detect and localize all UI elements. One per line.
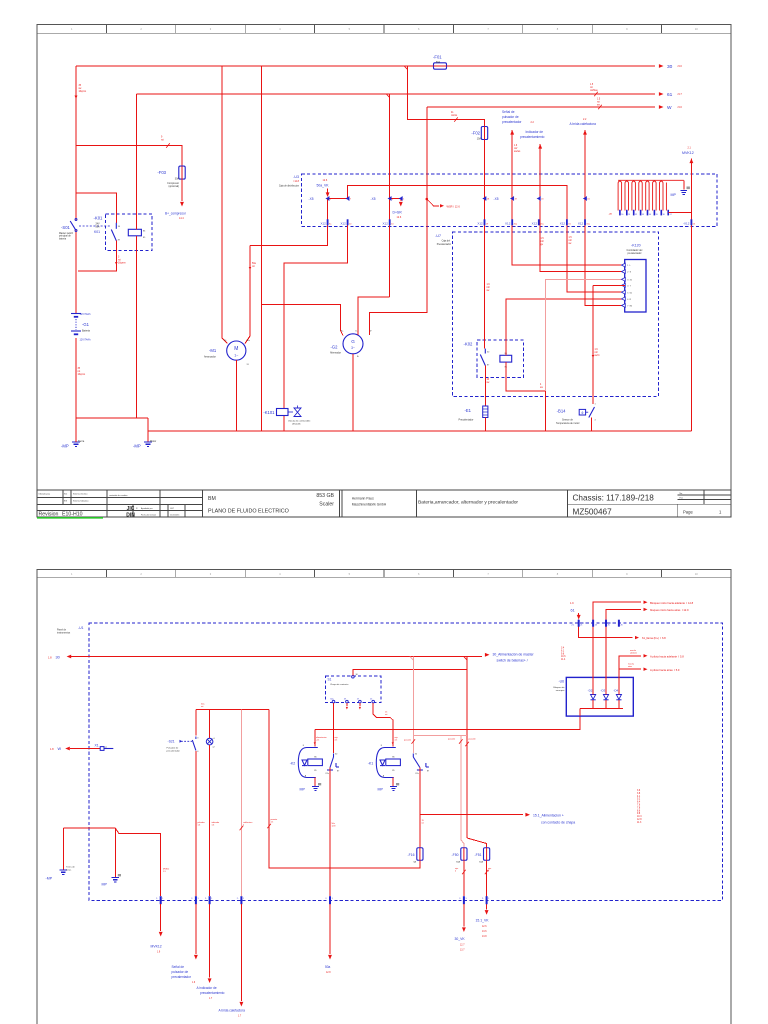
- wire 50a_VK stub: [327, 189, 329, 194]
- arrowhead Indicador: [538, 144, 542, 149]
- svg-text:23: 23: [595, 624, 597, 626]
- svg-text:1~: 1~: [234, 354, 238, 358]
- fuse F51 50A: [484, 848, 490, 861]
- svg-text:+15: +15: [316, 740, 319, 742]
- wire brida output: [240, 904, 242, 1001]
- svg-text:-U7: -U7: [435, 234, 441, 238]
- connector pin K120 pin 2: [622, 270, 626, 274]
- solenoid valve K101 Valvula de combustible: [277, 409, 289, 416]
- svg-text:/3.7: /3.7: [678, 92, 683, 96]
- relay contact K01: [115, 223, 117, 229]
- svg-text:rot: rot: [590, 86, 593, 89]
- wire bus30 to fuse F02: [408, 66, 485, 126]
- branch jog bus30 at x=407.6: [404, 66, 407, 70]
- svg-text:Bloqueo de: Bloqueo de: [553, 687, 565, 689]
- page 1 border frame: [37, 25, 731, 518]
- svg-text:1: 1: [211, 898, 212, 900]
- arrowhead MVK12 output: [159, 932, 163, 937]
- wire diode D2 anode: [592, 700, 594, 709]
- svg-text:precalentador: precalentador: [628, 252, 642, 255]
- svg-text:Utilizado para: Utilizado para: [39, 493, 52, 496]
- wire to F50 (pale): [461, 736, 464, 848]
- title block: [37, 490, 731, 517]
- page 1 header column ticks: [106, 25, 661, 34]
- connector pin X12: [511, 219, 513, 225]
- svg-text:12.6: 12.6: [323, 179, 328, 182]
- svg-text:MVK12: MVK12: [682, 151, 694, 155]
- svg-text:rot/: rot/: [514, 147, 518, 150]
- wire S1 pin19 stub: [346, 703, 348, 706]
- direction arrow on battery bus: [75, 96, 78, 100]
- arrowhead bloqueo atras: [644, 608, 648, 611]
- arrowhead 30 input: [67, 655, 72, 659]
- wire starter to ground bus: [235, 360, 237, 431]
- heater element E1 Precalentador: [483, 406, 488, 418]
- svg-text:rot/: rot/: [595, 351, 599, 354]
- wire diode bus exit: [579, 709, 581, 717]
- svg-text:-MP: -MP: [61, 444, 69, 449]
- arrowhead 61 input: [577, 615, 581, 620]
- svg-text:1.6: 1.6: [212, 825, 215, 827]
- arrowhead Señal output: [194, 955, 198, 960]
- svg-text:12.6: 12.6: [397, 216, 402, 219]
- svg-text:/ 12.8: / 12.8: [293, 180, 300, 183]
- wire E1 to ground bus: [484, 418, 486, 431]
- svg-text:10.6: 10.6: [561, 656, 566, 658]
- connector pin 15.1_VK output: [486, 896, 488, 904]
- ground -MP Tierra de lonas: [60, 870, 68, 874]
- svg-text:2:1: 2:1: [572, 624, 575, 626]
- svg-text:Page: Page: [683, 510, 693, 515]
- wire ground to MVK12 output: [115, 828, 160, 896]
- arrowhead 30_Alimentacion: [485, 653, 490, 657]
- connector pin 25 at U1 top: [605, 620, 607, 627]
- svg-text:-X5: -X5: [371, 197, 376, 201]
- svg-text:Valvula de combustible: Valvula de combustible: [288, 420, 311, 423]
- svg-text:(opcional): (opcional): [169, 185, 180, 188]
- svg-text:12.6: 12.6: [482, 926, 487, 928]
- svg-text:-B14: -B14: [557, 409, 567, 414]
- arrowhead 50a_VK: [326, 192, 330, 197]
- svg-text:11.03.2015: 11.03.2015: [170, 515, 179, 517]
- arrowhead bus W: [659, 105, 664, 109]
- svg-text:1.6: 1.6: [198, 825, 201, 827]
- connector pin 26 at U1 top: [618, 620, 620, 627]
- svg-text:-K120: -K120: [631, 244, 641, 248]
- svg-text:1: 1: [243, 898, 244, 900]
- svg-text:-K02: -K02: [464, 341, 474, 346]
- connector pin -X5: [325, 197, 328, 201]
- svg-text:-E1: -E1: [464, 408, 471, 413]
- svg-text:Maschinenfabrik GmbH: Maschinenfabrik GmbH: [352, 502, 387, 506]
- svg-text:rot: rot: [118, 258, 121, 261]
- svg-text:80A: 80A: [436, 61, 441, 64]
- svg-text:-X5: -X5: [309, 197, 314, 201]
- svg-text:/3.0: /3.0: [678, 105, 683, 109]
- ground -MP Tierra: [72, 442, 80, 446]
- wire ground bus left: [63, 827, 115, 829]
- wire K1 87 to junction 15.1: [419, 768, 421, 848]
- connector pin K120 pin 4: [622, 283, 626, 287]
- switch S01 master battery switch: [75, 219, 77, 221]
- svg-text:bateria: bateria: [59, 237, 67, 240]
- wire 30 to K1 contact (pale): [412, 657, 414, 754]
- wire X12 10 to valve K101: [284, 222, 348, 409]
- connector pin X12: [389, 219, 391, 225]
- svg-text:-MP: -MP: [46, 877, 53, 881]
- wire K02 coil 85 to ground bus: [506, 362, 546, 431]
- svg-text:A brida calefactora: A brida calefactora: [219, 1008, 246, 1012]
- wire 15.1 to arrow: [420, 814, 523, 816]
- svg-text:61_llama (D+) I 6.8: 61_llama (D+) I 6.8: [642, 636, 666, 640]
- wire to K2 coil: [314, 730, 316, 747]
- svg-text:4.5: 4.5: [335, 740, 338, 742]
- svg-text:Chassis: 117.189-/218: Chassis: 117.189-/218: [573, 494, 655, 503]
- svg-text:bloqueo inicio hacia atras I: bloqueo inicio hacia atras I 12.9: [650, 608, 689, 612]
- arrowhead D+SR: [399, 202, 403, 207]
- svg-text:No.: No.: [680, 493, 684, 495]
- arrowhead Señal: [510, 130, 514, 135]
- arrowhead MVK12: [689, 159, 693, 164]
- connector pin -X5: [482, 197, 485, 201]
- connector pin X12: [691, 219, 693, 225]
- wire X5 jumper 6-7: [328, 198, 348, 200]
- wire B14 to ground bus: [591, 418, 593, 431]
- svg-text:-K101: -K101: [263, 410, 275, 415]
- svg-text:precalentamiento: precalentamiento: [520, 135, 545, 139]
- svg-text:MP: MP: [102, 883, 108, 887]
- wire to S21: [195, 710, 197, 736]
- arrowhead W input: [65, 747, 70, 751]
- wire 50a output: [329, 904, 331, 954]
- connector pin X12: [584, 219, 586, 225]
- wire to indicator lamp: [209, 710, 211, 739]
- direction arrow: [314, 742, 316, 745]
- wire X5 jumper 4-1: [390, 199, 401, 202]
- svg-text:precalentador: precalentador: [172, 975, 192, 979]
- ground -MP Motor: [144, 442, 152, 446]
- svg-text:-U6: -U6: [559, 680, 565, 684]
- svg-text:-U1: -U1: [78, 626, 84, 630]
- svg-text:15.1_Alimentacion +: 15.1_Alimentacion +: [533, 813, 564, 817]
- connector pin Señal output: [195, 896, 197, 904]
- wire link 735 (pale): [413, 735, 467, 737]
- svg-text:X12: X12: [505, 221, 511, 225]
- wire alternator to ground bus: [352, 354, 354, 431]
- svg-text:(Shutoff): (Shutoff): [292, 423, 301, 426]
- fuse F02 15A: [481, 127, 487, 140]
- svg-text:MZ500467: MZ500467: [573, 507, 613, 516]
- connector pin 23 at U1 top: [592, 620, 594, 627]
- svg-text:12V/74Ah: 12V/74Ah: [80, 339, 92, 342]
- connector pin -X5: [583, 197, 586, 201]
- page 2 border frame: [37, 570, 731, 1024]
- wire lamp to indicador output: [209, 745, 211, 896]
- svg-text:Hermann Paus: Hermann Paus: [352, 496, 374, 500]
- svg-text:rot/blau: rot/blau: [590, 89, 598, 92]
- ignition switch S1 top pin: [352, 676, 355, 679]
- svg-text:rot: rot: [597, 100, 600, 103]
- connector pin X12: [484, 219, 486, 225]
- arrowhead Bloqueo adelante: [644, 601, 648, 604]
- wire D2 to Bloqueo adelante: [593, 602, 641, 694]
- wire to fuse F03: [76, 146, 182, 168]
- svg-text:A piloto hacia adelante I 5.8: A piloto hacia adelante I 5.8: [650, 654, 684, 658]
- svg-text:16qmm: 16qmm: [118, 262, 126, 264]
- svg-text:4.5: 4.5: [395, 740, 398, 742]
- wire jog to F51: [467, 838, 487, 848]
- wire to ground 2: [147, 418, 149, 442]
- arrowhead stub: [346, 707, 348, 710]
- svg-text:Caja de distribucion: Caja de distribucion: [279, 185, 300, 188]
- svg-text:-G1: -G1: [82, 322, 90, 327]
- svg-text:sw: sw: [79, 88, 82, 90]
- svg-text:30: 30: [667, 64, 673, 70]
- svg-text:sw/rt: sw/rt: [595, 354, 600, 357]
- wire 30 feed down to F51: [466, 657, 468, 839]
- svg-text:rot/: rot/: [487, 286, 491, 289]
- svg-text:-MP: -MP: [133, 444, 141, 449]
- wire Señal output: [195, 904, 197, 954]
- svg-text:precalentamiento: precalentamiento: [200, 991, 225, 995]
- svg-text:13.8: 13.8: [482, 936, 487, 938]
- wire battery bus lower: [75, 338, 77, 441]
- svg-text:-F50: -F50: [452, 853, 459, 857]
- svg-text:PLANO DE FLUIDO ELECTRICO: PLANO DE FLUIDO ELECTRICO: [208, 509, 289, 515]
- wire F02 to K02 contact: [484, 140, 486, 349]
- ignition switch S1 box (dashed): [326, 676, 381, 703]
- direction arrow: [392, 742, 394, 745]
- wire brida calefactora (pale): [240, 710, 242, 897]
- wire to K01 contact: [76, 193, 116, 223]
- svg-text:sw: sw: [597, 104, 600, 106]
- wire heater bottom to MVK12 line: [669, 212, 692, 214]
- ground MP under K1: [390, 787, 397, 791]
- instrument panel box U1 (dashed): [89, 623, 723, 900]
- svg-text:15.1_VK: 15.1_VK: [476, 919, 490, 923]
- svg-text:instrumentos: instrumentos: [57, 632, 71, 635]
- ignition switch S1 pin 50a: [332, 700, 335, 703]
- svg-text:30A: 30A: [175, 178, 180, 181]
- svg-text:61: 61: [667, 92, 673, 98]
- wire Indicador to K120 pin2: [540, 144, 625, 272]
- wire S1 feed from 30: [353, 670, 467, 676]
- svg-text:Precalentador: Precalentador: [437, 243, 452, 246]
- distribution box U3 (dashed): [302, 174, 717, 227]
- wire bus 15 to U6 diode box: [315, 716, 580, 729]
- svg-text:Motor: Motor: [150, 440, 156, 443]
- svg-text:-K2: -K2: [290, 762, 296, 766]
- svg-text:S1: S1: [328, 678, 332, 682]
- wire 50a to starter: [245, 246, 250, 344]
- svg-text:50A: 50A: [96, 225, 101, 228]
- relay K01 (dashed box): [106, 214, 152, 251]
- svg-text:Sistema hidraulico: Sistema hidraulico: [73, 500, 88, 503]
- svg-text:15A: 15A: [477, 138, 482, 141]
- svg-text:adelante: adelante: [630, 651, 637, 654]
- wire ground link: [76, 417, 148, 419]
- svg-text:61: 61: [571, 609, 575, 613]
- connector pin K120 pin 7: [622, 304, 626, 308]
- svg-text:11.3: 11.3: [637, 822, 642, 824]
- wire K02 coil 86 to K120 pin6: [506, 299, 625, 356]
- arrowhead WSR: [440, 204, 444, 207]
- temperature sensor B14 Sensor de Temperatura de motor: [579, 409, 585, 415]
- svg-text:JIC: JIC: [127, 506, 135, 512]
- svg-text:3~: 3~: [351, 346, 355, 350]
- svg-text:Bateria,arrancador, alternador: Bateria,arrancador, alternador y precale…: [418, 499, 518, 505]
- heater array pins: [619, 210, 669, 216]
- svg-text:precalentador: precalentador: [167, 749, 181, 752]
- svg-text:30: 30: [56, 656, 60, 660]
- svg-text:4.5: 4.5: [271, 822, 274, 824]
- wire F50 to 30_VK pin: [463, 860, 465, 896]
- arrowhead bus 61: [659, 92, 664, 96]
- connector pin K120 pin 3: [622, 277, 626, 281]
- branch jog 30bus at x=467.1: [464, 657, 467, 661]
- svg-text:2 S: 2 S: [627, 272, 631, 274]
- connector X1: [100, 747, 104, 751]
- connector pin X12: [327, 219, 329, 225]
- relay K02 (dashed box): [477, 340, 523, 377]
- svg-text:-X5: -X5: [494, 197, 499, 201]
- arrowhead 61_llama: [635, 636, 639, 639]
- wire F16 to S21 bus: [269, 710, 420, 869]
- wire K2 87 to 50a output: [329, 768, 331, 897]
- wire 50a to K120 pin5: [348, 186, 625, 293]
- svg-text:96: 96: [663, 214, 665, 216]
- svg-text:Chapa de contacto: Chapa de contacto: [330, 683, 349, 686]
- wire D3 to bloqueo atras: [606, 609, 641, 694]
- wire bus 30: [76, 65, 655, 67]
- ignition switch S1 pin 19: [346, 700, 349, 703]
- svg-text:1: 1: [162, 898, 163, 900]
- ground MP page2: [112, 878, 120, 882]
- svg-text:rot/: rot/: [541, 240, 545, 243]
- wire diode D3 anode: [605, 700, 607, 709]
- wire alternator D+: [358, 297, 390, 335]
- connector pin -X5: [388, 197, 391, 201]
- svg-text:W: W: [58, 747, 62, 751]
- svg-text:Caja del: Caja del: [442, 241, 451, 243]
- wire K01 contact to bus: [78, 241, 116, 271]
- svg-text:Bloqueo inicio hacia adelante: Bloqueo inicio hacia adelante I 12.8: [650, 601, 694, 605]
- svg-text:25: 25: [608, 624, 610, 626]
- svg-text:-S01: -S01: [61, 225, 71, 230]
- arrowhead A brida: [583, 130, 587, 135]
- svg-text:1: 1: [332, 898, 333, 900]
- wire bus30 to alternator: [261, 66, 263, 431]
- arrowhead 30_VK output: [462, 927, 466, 932]
- wire B14 to K120 pin4: [593, 284, 625, 286]
- svg-text:Temperatura de motor: Temperatura de motor: [556, 422, 580, 425]
- connector pin -X5: [345, 197, 348, 201]
- relay coil K01: [128, 229, 141, 236]
- svg-text:lonas: lonas: [66, 870, 72, 872]
- arrowhead B+_compresor: [180, 202, 184, 207]
- connector pin 50a output: [329, 896, 331, 904]
- svg-text:-D3: -D3: [601, 689, 606, 693]
- fuse F16 5A: [417, 848, 423, 861]
- svg-text:sw: sw: [487, 290, 490, 292]
- fuse F03 30A compresor: [179, 166, 185, 179]
- svg-text:rot: rot: [161, 138, 164, 141]
- wire alternator W to bus: [370, 107, 427, 335]
- wire bottom ground bus: [148, 430, 691, 432]
- svg-text:-F16: -F16: [408, 853, 415, 857]
- connector pin X12: [347, 219, 349, 225]
- svg-text:1: 1: [198, 898, 199, 900]
- wire heater top to MP ground: [683, 180, 685, 189]
- svg-text:-X12: -X12: [683, 221, 690, 225]
- svg-text:30_Alimentación de master: 30_Alimentación de master: [493, 652, 535, 656]
- relay module K2: [298, 748, 339, 778]
- svg-text:50A: 50A: [479, 861, 483, 864]
- svg-text:pulsador de: pulsador de: [172, 970, 189, 974]
- svg-text:Sist: Sist: [64, 493, 68, 496]
- fuse F50 50A: [461, 848, 467, 861]
- svg-text:MP: MP: [300, 788, 306, 792]
- wire S21 feed bus: [196, 709, 269, 711]
- svg-text:16qmm: 16qmm: [79, 91, 87, 93]
- svg-text:Arrancador: Arrancador: [204, 356, 216, 359]
- svg-text:X12: X12: [532, 221, 538, 225]
- svg-text:con contacto de chapa: con contacto de chapa: [541, 821, 575, 825]
- svg-text:MVK12: MVK12: [151, 945, 162, 949]
- svg-text:BM: BM: [208, 496, 216, 502]
- wire 61 to 61_llama: [579, 620, 633, 638]
- preheater box U7 (dashed): [453, 232, 659, 397]
- starter motor M1: [227, 341, 246, 360]
- svg-text:-M1: -M1: [209, 348, 217, 353]
- wire battery bus upper: [75, 66, 77, 220]
- connector pin -X5: [399, 197, 402, 201]
- wire MVK12 to ground bus: [690, 159, 692, 431]
- svg-text:X12: X12: [578, 221, 584, 225]
- svg-text:97: 97: [670, 214, 672, 216]
- svg-text:91: 91: [628, 214, 630, 216]
- svg-text:-F51: -F51: [475, 853, 482, 857]
- branch jog bus61 at x=389.7: [386, 94, 389, 98]
- battery G1: [71, 314, 81, 335]
- svg-text:50a: 50a: [325, 965, 331, 969]
- connector pin -X5: [537, 197, 540, 201]
- svg-text:B-: B-: [357, 356, 359, 358]
- svg-text:X1: X1: [95, 743, 99, 747]
- svg-text:Pulsador de: Pulsador de: [167, 746, 179, 749]
- svg-text:A indicador de: A indicador de: [197, 986, 217, 990]
- wire W to X1: [70, 748, 100, 750]
- svg-text:M: M: [234, 346, 238, 352]
- connector pin indicador output: [209, 896, 211, 904]
- wire B+ pin: [340, 330, 343, 336]
- wire MVK12 output: [160, 904, 162, 931]
- wire piloto atras: [619, 668, 641, 670]
- ground MP under K2: [312, 787, 319, 791]
- wire D4 to piloto adelante: [619, 656, 641, 695]
- svg-text:Revision: Revision: [39, 512, 59, 518]
- wire 31 sense to K120 pin3 (pale): [546, 279, 626, 391]
- svg-text:rot/ws: rot/ws: [451, 114, 458, 117]
- wire indicador output: [209, 904, 211, 978]
- svg-text:sw: sw: [569, 243, 572, 245]
- svg-text:sw: sw: [540, 387, 543, 389]
- svg-text:1.9: 1.9: [570, 601, 574, 605]
- ignition switch S1 pin 15: [372, 700, 375, 703]
- connector pin X12: [538, 219, 540, 225]
- svg-text:90: 90: [621, 214, 623, 216]
- svg-text:10.3: 10.3: [637, 816, 642, 818]
